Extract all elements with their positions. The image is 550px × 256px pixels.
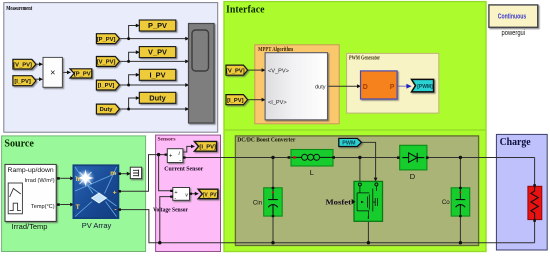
from tag [I_PV] measurement	[13, 76, 36, 86]
area MPPT Algorithm box	[255, 45, 339, 124]
svg-text:Irrad (W/m²): Irrad (W/m²)	[24, 178, 54, 184]
svg-text:×: ×	[50, 68, 55, 78]
wire voltage sensor v out to V_PV goto	[190, 193, 195, 195]
svg-text:Cin: Cin	[253, 199, 263, 206]
svg-text:<V_PV>: <V_PV>	[268, 68, 289, 74]
arrowhead blue PWM out	[406, 84, 411, 89]
wire PV plus to current sensor	[121, 155, 166, 192]
from tag [I_PV] interface	[226, 95, 248, 105]
goto tag [PWM]	[412, 79, 434, 92]
svg-text:T: T	[76, 204, 80, 211]
svg-text:Irrad/Temp: Irrad/Temp	[12, 222, 48, 231]
display block I_PV	[139, 69, 176, 80]
wire V_PV to product in1	[35, 63, 40, 65]
svg-text:Measurement: Measurement	[6, 5, 33, 12]
svg-text:Co: Co	[442, 199, 450, 206]
svg-text:Charge: Charge	[500, 137, 531, 148]
wire row Duty from-tag to scope and display	[120, 108, 186, 110]
wire I_PV to product in2	[35, 78, 40, 80]
wire ramp Irrad to PV Ir	[60, 177, 70, 179]
svg-text:D: D	[410, 172, 416, 181]
wire mosfet source drop	[367, 221, 369, 243]
wire PWM from-tag to mosfet gate	[361, 142, 375, 177]
svg-text:powergui: powergui	[502, 28, 526, 37]
svg-text:[V_PV]: [V_PV]	[226, 68, 245, 74]
svg-text:MPPT Algorithm: MPPT Algorithm	[258, 47, 293, 53]
svg-text:m: m	[110, 170, 116, 177]
area Interface (green region)	[224, 2, 486, 252]
svg-text:I_PV: I_PV	[149, 70, 165, 79]
svg-text:[I_PV]: [I_PV]	[98, 83, 114, 89]
wire bottom rail	[160, 242, 535, 244]
inductor L	[291, 150, 333, 167]
svg-text:[V_PV]: [V_PV]	[97, 60, 116, 66]
svg-text:PWM: PWM	[342, 141, 356, 147]
svg-text:<I_PV>: <I_PV>	[268, 100, 287, 106]
transistor Mosfet	[354, 181, 383, 221]
svg-text:Source: Source	[4, 138, 34, 149]
wire duty to PWM generator	[328, 85, 358, 87]
svg-text:[P_PV]: [P_PV]	[97, 37, 116, 43]
ramp-up/down source block	[5, 164, 56, 221]
svg-text:Duty: Duty	[100, 107, 114, 113]
goto tag [V_PV] sensors	[198, 189, 218, 199]
svg-text:[I_PV]: [I_PV]	[227, 98, 243, 104]
scope block	[189, 24, 215, 124]
svg-text:[P_PV]: [P_PV]	[74, 72, 93, 78]
svg-text:Mosfet: Mosfet	[326, 198, 352, 207]
svg-text:[I_PV]: [I_PV]	[199, 145, 216, 151]
PV Array block	[73, 165, 118, 218]
svg-text:[V_PV]: [V_PV]	[13, 62, 32, 68]
svg-text:s: s	[367, 215, 369, 219]
svg-text:PWM Generator: PWM Generator	[349, 55, 380, 61]
signal arrowheads	[39, 62, 43, 66]
wire row V_PV from-tag to scope and display	[120, 60, 186, 62]
wire interface I_PV to MPPT	[248, 99, 262, 101]
wire Cin bottom drop	[272, 216, 274, 243]
from tag Duty	[96, 104, 119, 114]
current sensor block	[167, 149, 183, 164]
powergui block	[489, 5, 538, 27]
svg-text:[V_PV]: [V_PV]	[203, 192, 218, 198]
svg-text:-: -	[114, 207, 116, 214]
from tag [V_PV]	[96, 57, 119, 67]
wire Cin top drop	[272, 157, 274, 188]
area Source	[2, 136, 146, 252]
area Sensors	[156, 135, 221, 251]
svg-text:-: -	[179, 158, 181, 164]
wire Co bottom drop	[459, 216, 461, 243]
diode D	[400, 145, 427, 170]
from tag [P_PV]	[96, 34, 119, 44]
svg-text:[PWM]: [PWM]	[417, 84, 433, 90]
wire row P_PV from-tag to scope and display	[120, 38, 186, 40]
svg-text:DC/DC Boost Converter: DC/DC Boost Converter	[237, 136, 295, 143]
wire PV minus down to bottom rail	[121, 210, 160, 243]
svg-text:PV Array: PV Array	[82, 221, 112, 230]
svg-text:P: P	[390, 84, 395, 91]
display block P_PV	[139, 20, 176, 31]
display block V_PV	[139, 47, 176, 58]
area DC/DC Boost Converter	[235, 136, 478, 246]
wire charge right vertical top	[534, 158, 536, 187]
svg-text:-: -	[174, 196, 176, 202]
goto tag [I_PV] sensors	[194, 141, 216, 151]
area PWM Generator box	[347, 53, 439, 113]
wire node B branch to voltage sensor minus	[160, 197, 171, 243]
resistor R load	[528, 186, 542, 219]
svg-text:V_PV: V_PV	[148, 48, 167, 57]
area Charge	[496, 134, 547, 250]
wire row I_PV from-tag to scope and display	[120, 84, 186, 86]
goto tag [P_PV]	[70, 69, 93, 78]
svg-text:Current Sensor: Current Sensor	[164, 166, 203, 173]
wire mosfet drain drop	[359, 157, 361, 182]
wire node A branch to voltage sensor plus	[159, 155, 171, 191]
terminator block for m	[130, 167, 141, 178]
svg-text:Ir: Ir	[76, 176, 81, 183]
svg-text:duty: duty	[315, 84, 326, 90]
svg-text:[I_PV]: [I_PV]	[14, 79, 30, 85]
wire product out to P_PV goto	[62, 71, 67, 73]
wire current sensor i out to I_PV goto	[183, 146, 191, 152]
wire PWM generator out (purple)	[397, 85, 406, 87]
from tag [V_PV] interface	[226, 65, 248, 75]
wire interface V_PV to MPPT	[248, 69, 262, 71]
PWM generator block	[361, 71, 398, 99]
svg-text:D: D	[363, 84, 368, 91]
wire charge right vertical bottom	[534, 220, 536, 243]
area Measurement	[4, 3, 218, 133]
svg-text:+: +	[113, 189, 117, 196]
svg-text:+: +	[169, 154, 173, 160]
product block U1	[43, 57, 62, 87]
capacitor Co	[451, 187, 470, 218]
from tag [V_PV] measurement	[13, 59, 36, 69]
svg-text:Continuous: Continuous	[498, 14, 527, 21]
svg-text:Duty: Duty	[149, 93, 166, 102]
svg-text:Interface: Interface	[226, 4, 265, 15]
MPPT algorithm subsystem block	[265, 53, 327, 120]
junction node dots	[127, 37, 130, 40]
svg-text:L: L	[310, 168, 314, 177]
wire Co top drop	[459, 157, 461, 188]
wire PV m to terminator	[121, 173, 127, 175]
capacitor Cin	[264, 187, 283, 218]
voltage sensor block	[173, 188, 190, 203]
display block Duty	[139, 92, 176, 103]
svg-text:Temp(°C): Temp(°C)	[31, 204, 55, 210]
svg-text:P_PV: P_PV	[148, 21, 167, 30]
port nubs	[57, 154, 536, 222]
svg-text:+: +	[174, 190, 177, 196]
from tag [PWM] boost	[339, 138, 362, 146]
wire top rail	[184, 157, 535, 159]
wire ramp Temp to PV T	[60, 204, 70, 206]
svg-text:Voltage Sensor: Voltage Sensor	[153, 207, 188, 214]
svg-text:Ramp-up/down: Ramp-up/down	[8, 167, 54, 174]
svg-text:Sensors: Sensors	[158, 137, 176, 143]
from tag [I_PV]	[96, 80, 119, 90]
